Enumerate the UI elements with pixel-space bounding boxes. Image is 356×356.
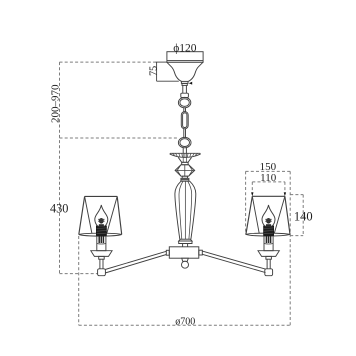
dim 150 dashed line	[246, 170, 291, 172]
dish funnel	[178, 157, 191, 162]
chain wire 1	[183, 108, 185, 112]
right shade	[246, 196, 290, 236]
canopy bell	[167, 62, 203, 81]
candle bulb	[95, 205, 108, 226]
svg-text:150: 150	[260, 161, 277, 173]
dish neck through-lines	[183, 153, 186, 162]
bobeche cup	[91, 251, 112, 257]
canopy stem collar	[182, 83, 187, 85]
outer silhouette	[79, 196, 122, 234]
hub knob	[182, 258, 189, 261]
hub right stub	[199, 250, 203, 255]
inner silhouette	[85, 196, 118, 233]
hub left stub	[166, 250, 169, 255]
riser collar	[99, 256, 105, 259]
top rim	[252, 195, 285, 197]
vase foot neck	[183, 244, 188, 247]
bulb filament detail	[99, 218, 104, 224]
dim arrow at canopy stem	[189, 82, 192, 85]
chain ring 1	[178, 97, 190, 107]
sleeve dark streaks	[99, 236, 103, 243]
hub body	[169, 247, 199, 258]
vase top collar	[181, 178, 189, 181]
glass dish top line	[170, 152, 200, 154]
dim dashed horizontal at arm elbow level	[60, 273, 98, 275]
dim 110 right extension dashed	[284, 182, 286, 193]
svg-text:200–970: 200–970	[49, 84, 61, 123]
canopy plate inner line	[167, 60, 203, 62]
socket hatch	[97, 228, 107, 234]
outer silhouette	[246, 196, 290, 234]
dim 75 vertical line	[156, 62, 158, 81]
dim dashed horizontal at ring2 level	[60, 137, 179, 139]
vase body	[175, 181, 196, 239]
canopy bottom plate	[181, 81, 188, 83]
svg-text:140: 140	[294, 209, 313, 223]
bead equator	[175, 169, 195, 171]
dim 110 dashed line	[252, 181, 285, 183]
bead facets	[177, 165, 192, 177]
elbow block	[98, 269, 106, 276]
candle sleeve	[97, 235, 106, 250]
vase foot band	[179, 239, 192, 243]
dia700 box bottom dashed	[79, 324, 291, 326]
svg-text:110: 110	[260, 172, 277, 184]
dia700 box right vertical dashed	[289, 171, 291, 325]
right arm	[202, 251, 265, 273]
dim 110 left extension dashed	[251, 182, 253, 193]
bottom rim ellipse	[79, 233, 122, 236]
vase bottom line	[180, 238, 191, 240]
left lamp column	[91, 205, 112, 276]
funnel collar	[182, 162, 188, 165]
svg-text:75: 75	[148, 66, 159, 76]
chain wire 2	[183, 129, 185, 138]
top rim	[85, 195, 118, 197]
dim vertical dashed line left (200-970 / 430)	[60, 62, 304, 325]
svg-text:ϕ120: ϕ120	[173, 43, 197, 55]
column neck below ring2	[182, 148, 184, 154]
glass dish rim	[170, 153, 200, 157]
canopy plate rect	[167, 52, 203, 63]
vase facet lines	[179, 181, 192, 239]
dim 75 solid tick bottom	[157, 80, 179, 82]
dim 150 left extension dashed	[245, 171, 247, 234]
chain top collar	[181, 93, 189, 97]
dim 140 box bottom dashed	[290, 235, 303, 237]
bottom rim ellipse	[246, 233, 290, 236]
chain ring 2	[178, 137, 191, 147]
bead lower collar	[182, 176, 187, 178]
lamp socket (dark)	[97, 226, 107, 235]
left arm	[105, 251, 166, 273]
dim 75 solid tick top	[155, 61, 167, 63]
dim 140 box top dashed	[290, 194, 303, 196]
inner silhouette	[252, 196, 285, 233]
crystal bead	[175, 165, 195, 177]
glass dish facets	[173, 153, 198, 157]
dim 110 right arrowhead	[284, 192, 286, 196]
chain link	[181, 112, 188, 129]
riser stem	[99, 259, 101, 269]
canopy stem	[182, 85, 184, 93]
dim 110 left arrowhead	[251, 192, 253, 196]
dim 140 box right vertical dashed	[302, 195, 304, 236]
dim dashed horizontal at canopy bottom	[60, 61, 156, 63]
dia700 box left vertical dashed	[78, 236, 80, 325]
right lamp column	[258, 205, 279, 276]
left shade	[79, 196, 122, 236]
svg-text:430: 430	[50, 202, 68, 216]
hub finial ball	[182, 261, 189, 268]
svg-text:ø700: ø700	[175, 316, 195, 327]
